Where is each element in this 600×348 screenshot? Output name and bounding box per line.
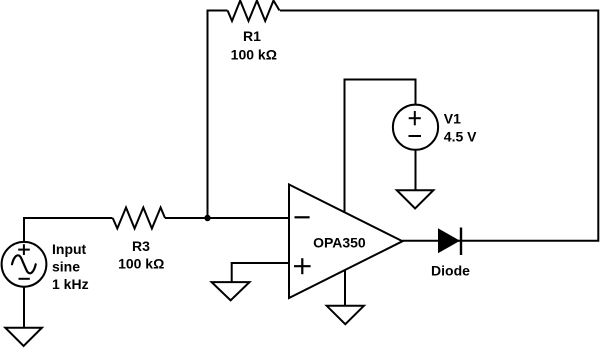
svg-text:R1: R1	[243, 28, 261, 44]
svg-text:4.5 V: 4.5 V	[444, 129, 477, 145]
svg-text:OPA350: OPA350	[313, 235, 366, 251]
svg-text:R3: R3	[132, 238, 150, 254]
svg-text:100 kΩ: 100 kΩ	[118, 255, 164, 271]
svg-text:sine: sine	[52, 259, 80, 275]
svg-text:Input: Input	[52, 241, 87, 257]
svg-text:100 kΩ: 100 kΩ	[231, 46, 277, 62]
svg-text:1 kHz: 1 kHz	[52, 276, 89, 292]
svg-text:V1: V1	[444, 111, 461, 127]
svg-text:Diode: Diode	[431, 263, 470, 279]
